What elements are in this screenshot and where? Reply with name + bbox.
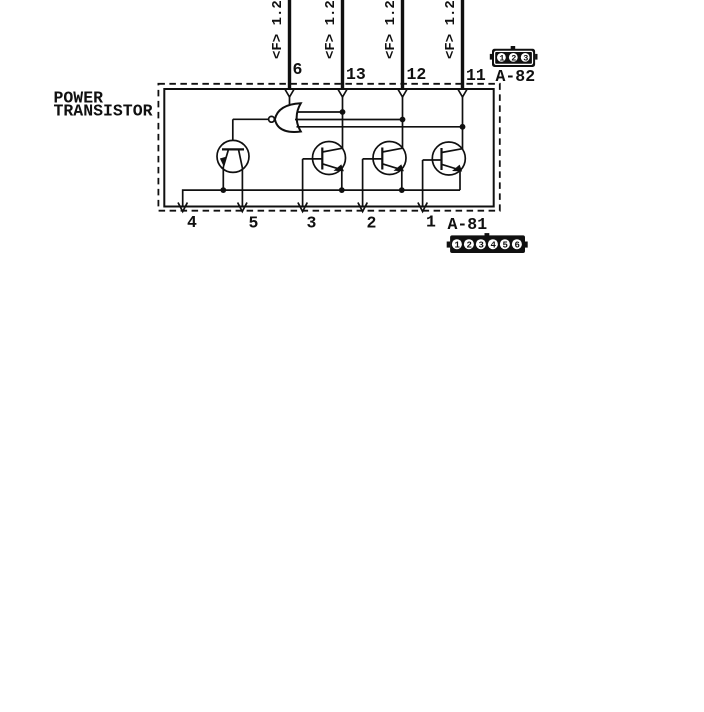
wire Q2 emitter to rail xyxy=(341,170,343,190)
entry arrowhead pin 11 xyxy=(458,89,468,98)
emitter rail wire xyxy=(183,190,460,206)
wire pin12 down to Q3 xyxy=(402,97,404,149)
svg-text:6: 6 xyxy=(293,60,303,79)
wire Q4 base down to pin 1 xyxy=(423,159,442,161)
svg-text:2: 2 xyxy=(511,53,516,63)
svg-text:5: 5 xyxy=(503,241,508,251)
wire Q2 base down to pin 3 xyxy=(303,158,323,160)
svg-text:TRANSISTOR: TRANSISTOR xyxy=(54,102,153,121)
wire Q4 emitter down to rail end xyxy=(459,170,461,190)
exit arrowhead pin 4 xyxy=(178,203,187,212)
transistor Q2 xyxy=(313,142,346,175)
svg-text:4: 4 xyxy=(187,213,197,232)
connector A-81 icon xyxy=(447,233,528,253)
svg-text:2: 2 xyxy=(367,214,377,233)
transistor Q1 xyxy=(217,140,249,172)
power transistor dashed box xyxy=(158,84,499,211)
wire ignition coil 1 (top, pin 6) xyxy=(288,0,291,88)
svg-text:5: 5 xyxy=(249,214,259,233)
svg-text:1: 1 xyxy=(499,53,504,63)
gate input wire 1 xyxy=(297,111,343,113)
wire Q3 emitter to rail xyxy=(401,170,403,190)
wire pin11 down to Q4 xyxy=(462,97,464,149)
NOR gate U1 (pointing left) xyxy=(269,103,301,132)
svg-text:<F> 1.25B: <F> 1.25B xyxy=(383,0,399,59)
svg-text:12: 12 xyxy=(407,65,427,84)
svg-text:1: 1 xyxy=(426,213,436,232)
node dot gate input 2 / wire 12 xyxy=(400,117,406,123)
entry arrowhead pin 13 xyxy=(338,89,348,98)
power transistor solid box xyxy=(164,89,493,207)
transistor Q4 xyxy=(432,142,465,175)
svg-text:2: 2 xyxy=(467,241,472,251)
wire ignition coil 2 (top, pin 13) xyxy=(341,0,344,88)
entry arrowhead pin 12 xyxy=(398,89,408,98)
node dot gate input 3 / wire 11 xyxy=(460,124,466,130)
wire Q1 collector down to pin 5 xyxy=(241,168,243,207)
wire ignition coil 3 (top, pin 12) xyxy=(401,0,404,88)
svg-text:A-82: A-82 xyxy=(496,67,536,86)
wire Q1 emitter to rail xyxy=(222,167,224,190)
svg-text:A-81: A-81 xyxy=(448,215,488,234)
gate input wire 2 xyxy=(295,119,403,121)
svg-text:3: 3 xyxy=(523,53,528,63)
node dot Q1 emitter / rail xyxy=(220,187,226,193)
wire ignition coil 4 (top, pin 11) xyxy=(461,0,464,88)
transistor Q3 xyxy=(373,142,406,175)
gate input wire 3 xyxy=(297,126,463,128)
svg-text:3: 3 xyxy=(479,241,484,251)
svg-text:<F> 1.25B: <F> 1.25B xyxy=(443,0,459,59)
exit arrowhead pin 1 xyxy=(418,203,427,212)
exit arrowhead pin 2 xyxy=(358,203,367,212)
svg-text:3: 3 xyxy=(307,214,317,233)
entry arrowhead pin 6 xyxy=(285,89,295,98)
svg-text:1: 1 xyxy=(455,241,461,251)
svg-text:6: 6 xyxy=(515,241,520,251)
node dot Q2 emitter / rail xyxy=(339,187,345,193)
exit arrowhead pin 3 xyxy=(298,203,307,212)
wire Q1 base vertical xyxy=(232,119,234,140)
gate output wire to Q1 base xyxy=(233,118,269,120)
wire pin6 to gate xyxy=(289,97,291,106)
node dot Q3 emitter / rail xyxy=(399,187,405,193)
svg-text:<F> 1.25B: <F> 1.25B xyxy=(270,0,286,59)
svg-text:11: 11 xyxy=(466,66,486,85)
exit arrowhead pin 5 xyxy=(238,203,247,212)
svg-text:13: 13 xyxy=(346,65,366,84)
node dot gate input 1 / wire 13 xyxy=(340,109,346,115)
svg-text:4: 4 xyxy=(491,241,497,251)
wire pin13 down to Q2 xyxy=(342,97,344,149)
wire Q3 base down to pin 2 xyxy=(363,158,383,160)
svg-text:<F> 1.25B: <F> 1.25B xyxy=(323,0,339,59)
connector A-82 icon xyxy=(490,46,538,67)
